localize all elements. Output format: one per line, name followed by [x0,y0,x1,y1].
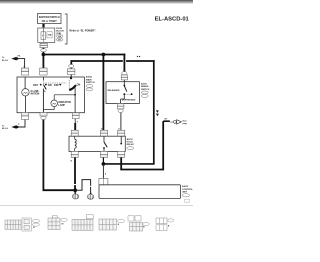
svg-text:Refer to “EL-POWER”.: Refer to “EL-POWER”. [70,29,97,32]
svg-text:ASCD: ASCD [86,76,93,79]
svg-text:Next: Next [183,119,187,122]
svg-text:SWITCH: SWITCH [141,89,150,91]
svg-text:EL-ILL: EL-ILL [2,128,9,130]
svg-text:EL-ILL: EL-ILL [2,60,9,62]
svg-text:OFF: OFF [54,83,60,87]
svg-text:IGNITION SWITCH: IGNITION SWITCH [39,16,60,19]
svg-text:10A: 10A [47,34,51,37]
svg-text:ON: ON [77,84,81,87]
svg-text:NATION: NATION [31,93,40,96]
svg-text:ASCD: ASCD [127,138,134,141]
svg-text:INDICATOR: INDICATOR [58,101,71,104]
svg-text:5: 5 [77,121,78,123]
svg-text:RELEASED: RELEASED [108,89,120,92]
svg-text:ILLUMI-: ILLUMI- [31,91,40,93]
svg-text:RELAY: RELAY [127,143,135,146]
svg-text:SWITCH: SWITCH [86,82,95,84]
svg-text:EL-ASCD-01: EL-ASCD-01 [155,16,190,22]
svg-text:BRAKE: BRAKE [141,85,149,88]
svg-text:HOLD: HOLD [127,142,134,144]
svg-text:LAMP: LAMP [58,104,65,107]
svg-text:ASCD: ASCD [141,82,147,85]
svg-text:MAIN: MAIN [86,78,92,81]
svg-text:M7: M7 [58,40,61,42]
svg-text:page: page [183,123,187,125]
svg-text:DEPRESSED: DEPRESSED [122,99,136,101]
svg-text:OFF: OFF [33,83,39,87]
svg-text:M6: M6 [58,36,61,38]
svg-text:UNIT: UNIT [182,192,188,194]
svg-text:ASCD: ASCD [182,185,189,188]
svg-text:ON: ON [48,83,52,87]
svg-text:ON or START: ON or START [42,20,58,23]
svg-text:CONTROL: CONTROL [182,189,193,191]
